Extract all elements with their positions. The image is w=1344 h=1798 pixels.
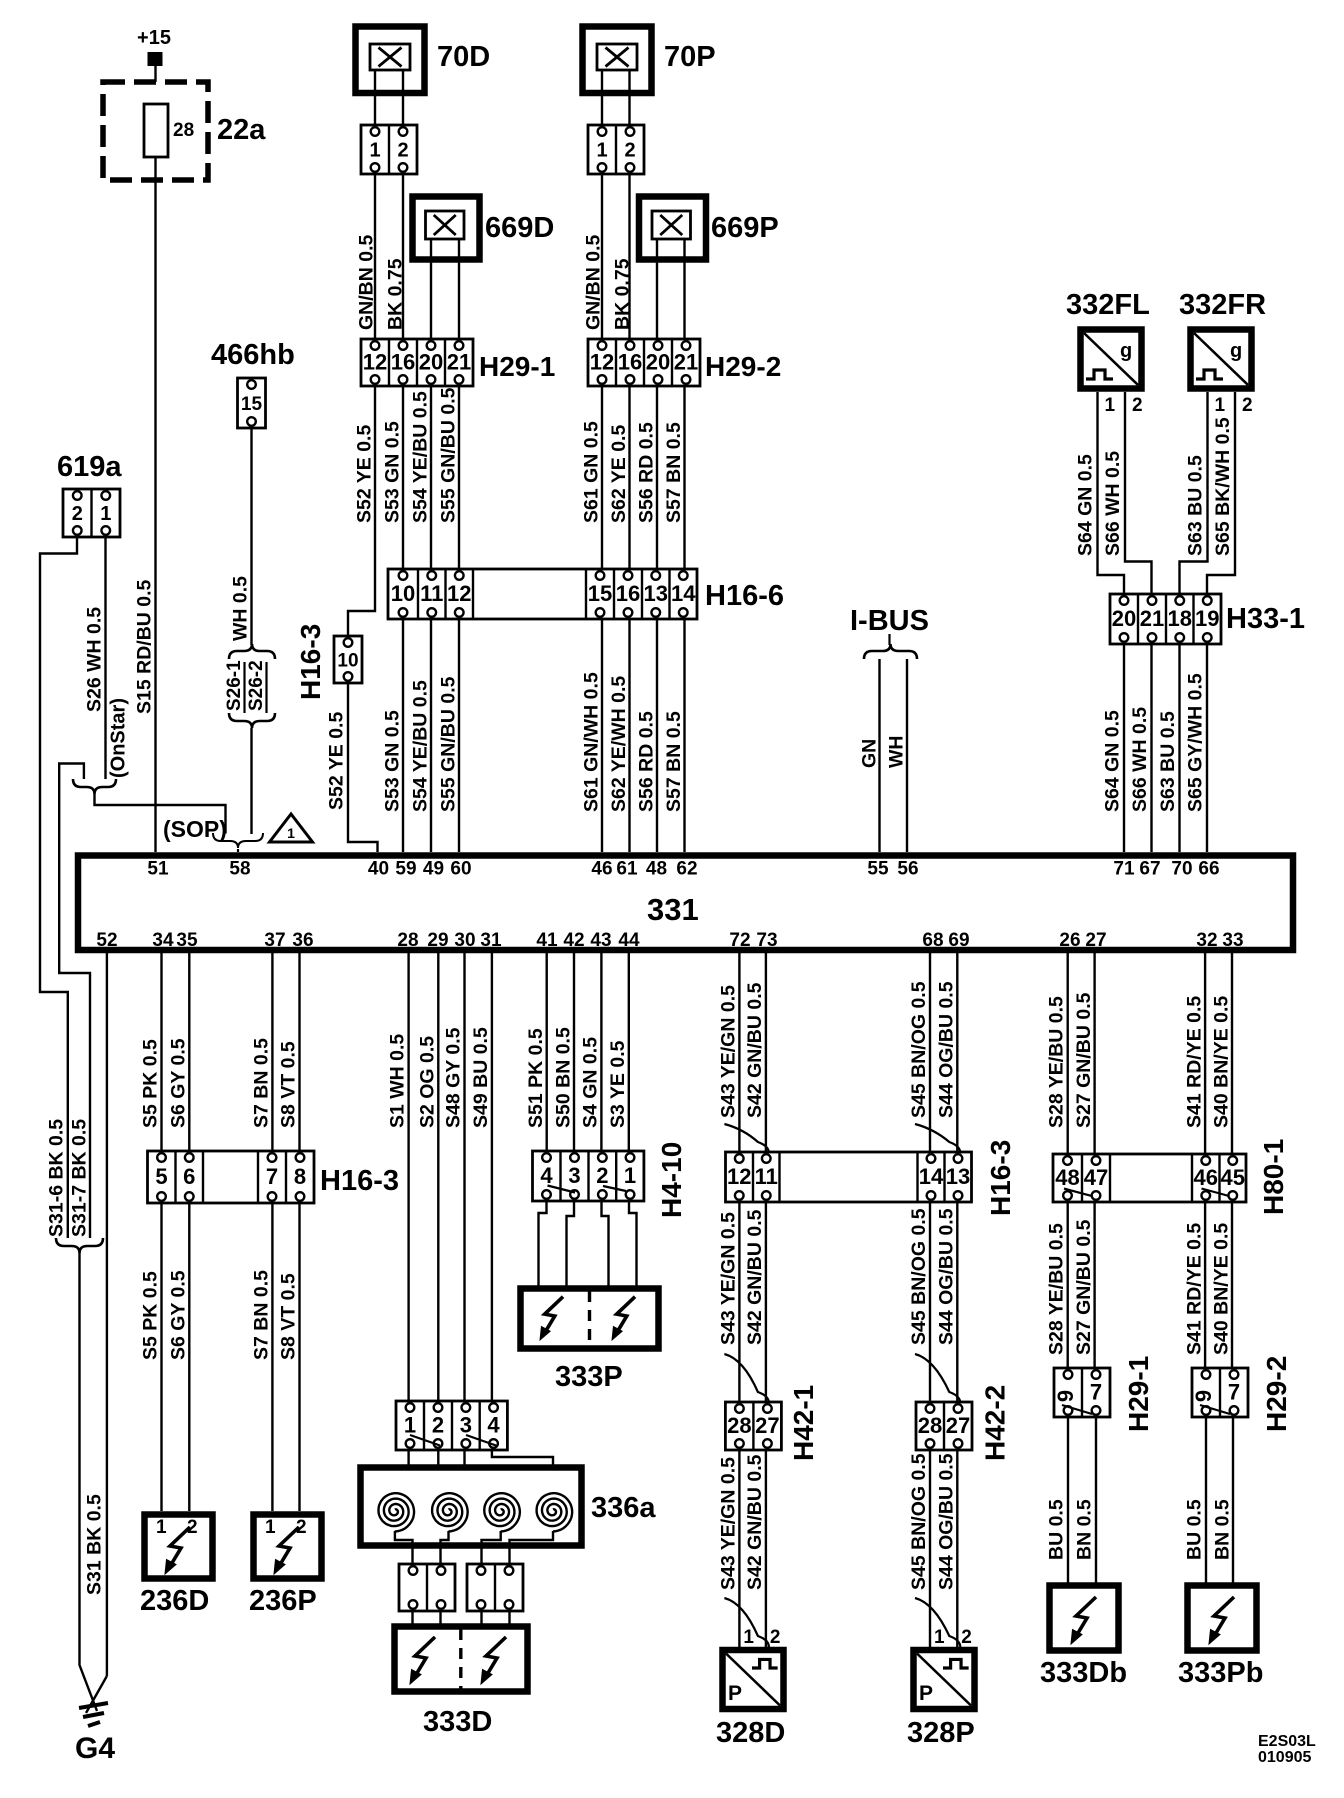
svg-text:70D: 70D xyxy=(437,41,490,73)
svg-text:H29-1: H29-1 xyxy=(1123,1356,1154,1432)
svg-text:28: 28 xyxy=(397,930,418,951)
svg-text:2: 2 xyxy=(397,140,408,162)
svg-text:328D: 328D xyxy=(716,1717,785,1749)
svg-text:S66 WH 0.5: S66 WH 0.5 xyxy=(1102,451,1124,556)
svg-text:S65 GY/WH 0.5: S65 GY/WH 0.5 xyxy=(1185,673,1207,812)
svg-text:21: 21 xyxy=(1140,606,1164,631)
svg-text:H29-2: H29-2 xyxy=(1261,1356,1292,1432)
svg-text:S40 BN/YE 0.5: S40 BN/YE 0.5 xyxy=(1211,996,1233,1128)
svg-text:1: 1 xyxy=(404,1413,416,1438)
svg-text:20: 20 xyxy=(419,350,443,375)
svg-text:37: 37 xyxy=(264,930,285,951)
svg-text:S49 BU 0.5: S49 BU 0.5 xyxy=(470,1027,492,1128)
svg-text:48: 48 xyxy=(1055,1165,1079,1190)
svg-text:S5 PK 0.5: S5 PK 0.5 xyxy=(140,1271,162,1360)
svg-text:22a: 22a xyxy=(217,114,266,146)
svg-text:10: 10 xyxy=(391,581,415,606)
svg-text:S45 BN/OG 0.5: S45 BN/OG 0.5 xyxy=(908,1453,930,1590)
svg-text:S61 GN 0.5: S61 GN 0.5 xyxy=(581,421,603,523)
svg-text:g: g xyxy=(1230,340,1242,362)
svg-text:S48 GY 0.5: S48 GY 0.5 xyxy=(443,1027,465,1128)
svg-text:H29-2: H29-2 xyxy=(705,351,781,382)
svg-text:66: 66 xyxy=(1198,859,1219,880)
svg-text:56: 56 xyxy=(897,859,918,880)
svg-text:32: 32 xyxy=(1196,930,1217,951)
svg-text:GN/BN 0.5: GN/BN 0.5 xyxy=(583,234,605,330)
svg-text:2: 2 xyxy=(596,1163,608,1188)
svg-text:2: 2 xyxy=(1132,395,1143,416)
svg-text:S2 OG 0.5: S2 OG 0.5 xyxy=(417,1036,439,1128)
svg-text:S51 PK 0.5: S51 PK 0.5 xyxy=(525,1028,547,1128)
svg-text:BK 0.75: BK 0.75 xyxy=(612,258,634,330)
svg-text:GN/BN 0.5: GN/BN 0.5 xyxy=(356,234,378,330)
svg-text:1: 1 xyxy=(156,1517,167,1538)
svg-text:1: 1 xyxy=(934,1627,945,1648)
svg-text:+15: +15 xyxy=(137,27,171,49)
svg-text:669P: 669P xyxy=(711,212,779,244)
svg-text:S27 GN/BU 0.5: S27 GN/BU 0.5 xyxy=(1073,992,1095,1128)
svg-text:S27 GN/BU 0.5: S27 GN/BU 0.5 xyxy=(1073,1219,1095,1355)
svg-text:18: 18 xyxy=(1168,606,1192,631)
svg-text:52: 52 xyxy=(96,930,117,951)
svg-text:12: 12 xyxy=(590,350,614,375)
svg-text:1: 1 xyxy=(596,140,607,162)
svg-text:BU 0.5: BU 0.5 xyxy=(1184,1499,1206,1560)
svg-text:12: 12 xyxy=(447,581,471,606)
svg-text:S26-1: S26-1 xyxy=(224,660,245,711)
svg-text:14: 14 xyxy=(671,581,696,606)
svg-text:WH 0.5: WH 0.5 xyxy=(230,576,252,641)
svg-text:4: 4 xyxy=(487,1413,500,1438)
svg-text:69: 69 xyxy=(948,930,969,951)
svg-text:S55 GN/BU 0.5: S55 GN/BU 0.5 xyxy=(438,387,460,523)
svg-text:41: 41 xyxy=(536,930,558,951)
svg-text:55: 55 xyxy=(867,859,889,880)
svg-text:60: 60 xyxy=(450,859,471,880)
svg-text:42: 42 xyxy=(563,930,584,951)
svg-text:58: 58 xyxy=(229,859,250,880)
svg-text:19: 19 xyxy=(1195,606,1219,631)
svg-text:2: 2 xyxy=(432,1413,444,1438)
svg-text:S53 GN 0.5: S53 GN 0.5 xyxy=(382,710,404,812)
svg-text:333D: 333D xyxy=(423,1706,492,1738)
svg-text:2: 2 xyxy=(770,1627,781,1648)
svg-text:S6 GY 0.5: S6 GY 0.5 xyxy=(168,1270,190,1360)
svg-text:12: 12 xyxy=(363,350,387,375)
svg-text:S52 YE 0.5: S52 YE 0.5 xyxy=(326,712,348,810)
svg-text:H16-3: H16-3 xyxy=(295,624,326,700)
svg-text:S4 GN 0.5: S4 GN 0.5 xyxy=(580,1037,602,1128)
svg-text:BN 0.5: BN 0.5 xyxy=(1074,1499,1096,1560)
svg-text:1: 1 xyxy=(624,1163,636,1188)
svg-text:14: 14 xyxy=(919,1164,944,1189)
svg-text:H42-2: H42-2 xyxy=(979,1385,1010,1461)
svg-text:28: 28 xyxy=(173,120,194,141)
svg-text:2: 2 xyxy=(1242,395,1253,416)
svg-text:1: 1 xyxy=(369,140,380,162)
svg-text:I-BUS: I-BUS xyxy=(850,605,929,637)
svg-text:4: 4 xyxy=(540,1163,553,1188)
svg-text:9: 9 xyxy=(1053,1390,1078,1402)
svg-text:BU 0.5: BU 0.5 xyxy=(1046,1499,1068,1560)
svg-text:1: 1 xyxy=(100,503,111,525)
svg-text:72: 72 xyxy=(729,930,750,951)
svg-text:3: 3 xyxy=(568,1163,580,1188)
svg-text:48: 48 xyxy=(646,859,667,880)
svg-text:H16-3: H16-3 xyxy=(985,1140,1016,1216)
svg-text:S6 GY 0.5: S6 GY 0.5 xyxy=(168,1038,190,1128)
svg-text:H80-1: H80-1 xyxy=(1258,1139,1289,1215)
svg-text:466hb: 466hb xyxy=(211,339,295,371)
svg-text:71: 71 xyxy=(1113,859,1135,880)
svg-text:S64 GN 0.5: S64 GN 0.5 xyxy=(1102,710,1124,812)
svg-text:P: P xyxy=(728,1682,742,1705)
svg-text:H16-3: H16-3 xyxy=(320,1165,399,1197)
svg-text:12: 12 xyxy=(727,1164,751,1189)
svg-text:BN 0.5: BN 0.5 xyxy=(1212,1499,1234,1560)
svg-text:S62 YE 0.5: S62 YE 0.5 xyxy=(608,425,630,523)
svg-text:S31 BK 0.5: S31 BK 0.5 xyxy=(84,1494,106,1595)
svg-text:6: 6 xyxy=(183,1164,195,1189)
svg-text:336a: 336a xyxy=(591,1492,656,1524)
svg-text:S7 BN 0.5: S7 BN 0.5 xyxy=(251,1270,273,1360)
svg-text:S44 OG/BU 0.5: S44 OG/BU 0.5 xyxy=(935,1208,957,1345)
svg-text:BK 0.75: BK 0.75 xyxy=(385,258,407,330)
svg-text:21: 21 xyxy=(674,350,698,375)
svg-text:331: 331 xyxy=(647,892,699,927)
svg-text:46: 46 xyxy=(1194,1165,1218,1190)
svg-text:S3 YE 0.5: S3 YE 0.5 xyxy=(607,1040,629,1128)
svg-text:1: 1 xyxy=(1215,395,1226,416)
svg-text:S31-6 BK 0.5: S31-6 BK 0.5 xyxy=(46,1119,68,1237)
svg-text:333Db: 333Db xyxy=(1040,1657,1127,1689)
svg-text:11: 11 xyxy=(755,1164,778,1189)
svg-text:51: 51 xyxy=(147,859,169,880)
svg-text:g: g xyxy=(1120,340,1132,362)
svg-text:H4-10: H4-10 xyxy=(656,1142,687,1218)
svg-text:S63 BU 0.5: S63 BU 0.5 xyxy=(1185,455,1207,556)
svg-text:47: 47 xyxy=(1084,1165,1108,1190)
svg-text:S56 RD 0.5: S56 RD 0.5 xyxy=(636,711,658,812)
svg-text:15: 15 xyxy=(588,581,612,606)
svg-text:70P: 70P xyxy=(664,41,716,73)
svg-text:S28 YE/BU 0.5: S28 YE/BU 0.5 xyxy=(1046,996,1068,1128)
svg-text:70: 70 xyxy=(1171,859,1192,880)
svg-text:P: P xyxy=(919,1682,933,1705)
svg-text:15: 15 xyxy=(241,394,263,415)
svg-text:67: 67 xyxy=(1139,859,1160,880)
svg-text:1: 1 xyxy=(1105,395,1116,416)
svg-text:S66 WH 0.5: S66 WH 0.5 xyxy=(1129,707,1151,812)
svg-text:S43 YE/GN 0.5: S43 YE/GN 0.5 xyxy=(717,1457,739,1590)
svg-text:S44 OG/BU 0.5: S44 OG/BU 0.5 xyxy=(935,981,957,1118)
svg-text:S43 YE/GN 0.5: S43 YE/GN 0.5 xyxy=(717,1212,739,1345)
svg-text:H16-6: H16-6 xyxy=(705,580,784,612)
svg-text:(SOP): (SOP) xyxy=(163,816,227,842)
svg-text:26: 26 xyxy=(1059,930,1080,951)
svg-text:40: 40 xyxy=(368,859,389,880)
svg-text:2: 2 xyxy=(961,1627,972,1648)
svg-text:33: 33 xyxy=(1222,930,1243,951)
svg-text:27: 27 xyxy=(755,1413,779,1438)
svg-text:30: 30 xyxy=(454,930,475,951)
svg-text:S65 BK/WH 0.5: S65 BK/WH 0.5 xyxy=(1212,417,1234,556)
svg-text:S15 RD/BU 0.5: S15 RD/BU 0.5 xyxy=(134,579,156,714)
svg-text:236D: 236D xyxy=(140,1585,209,1617)
svg-text:43: 43 xyxy=(590,930,611,951)
svg-text:H33-1: H33-1 xyxy=(1226,603,1305,635)
svg-text:S26-2: S26-2 xyxy=(246,660,267,711)
svg-text:20: 20 xyxy=(646,350,670,375)
svg-text:S43 YE/GN 0.5: S43 YE/GN 0.5 xyxy=(717,985,739,1118)
svg-text:7: 7 xyxy=(266,1164,278,1189)
svg-text:S8 VT 0.5: S8 VT 0.5 xyxy=(278,1273,300,1360)
svg-text:GN: GN xyxy=(859,739,881,768)
svg-text:S41 RD/YE 0.5: S41 RD/YE 0.5 xyxy=(1184,996,1206,1128)
svg-text:010905: 010905 xyxy=(1258,1749,1311,1766)
svg-text:S5 PK 0.5: S5 PK 0.5 xyxy=(140,1039,162,1128)
svg-text:619a: 619a xyxy=(57,451,122,483)
svg-text:S56 RD 0.5: S56 RD 0.5 xyxy=(636,422,658,523)
svg-text:S57 BN 0.5: S57 BN 0.5 xyxy=(663,422,685,523)
svg-text:13: 13 xyxy=(644,581,668,606)
svg-text:10: 10 xyxy=(337,651,358,672)
svg-text:S55 GN/BU 0.5: S55 GN/BU 0.5 xyxy=(438,676,460,812)
svg-text:16: 16 xyxy=(616,581,640,606)
svg-text:S7 BN 0.5: S7 BN 0.5 xyxy=(251,1038,273,1128)
svg-text:S63 BU 0.5: S63 BU 0.5 xyxy=(1157,711,1179,812)
svg-text:S44 OG/BU 0.5: S44 OG/BU 0.5 xyxy=(935,1453,957,1590)
svg-text:S41 RD/YE 0.5: S41 RD/YE 0.5 xyxy=(1184,1223,1206,1355)
svg-text:16: 16 xyxy=(391,350,415,375)
svg-text:333P: 333P xyxy=(555,1361,623,1393)
svg-text:31: 31 xyxy=(480,930,502,951)
svg-text:36: 36 xyxy=(292,930,313,951)
svg-text:27: 27 xyxy=(946,1413,970,1438)
svg-text:S45 BN/OG 0.5: S45 BN/OG 0.5 xyxy=(908,981,930,1118)
svg-text:73: 73 xyxy=(756,930,777,951)
svg-text:S8 VT 0.5: S8 VT 0.5 xyxy=(278,1041,300,1128)
svg-text:49: 49 xyxy=(423,859,444,880)
svg-text:669D: 669D xyxy=(485,212,554,244)
svg-text:16: 16 xyxy=(618,350,642,375)
svg-text:S61 GN/WH 0.5: S61 GN/WH 0.5 xyxy=(581,672,603,812)
svg-text:28: 28 xyxy=(727,1413,751,1438)
svg-text:62: 62 xyxy=(676,859,697,880)
svg-text:332FL: 332FL xyxy=(1066,289,1150,321)
svg-text:7: 7 xyxy=(1090,1380,1102,1405)
svg-text:44: 44 xyxy=(618,930,640,951)
svg-text:S57 BN 0.5: S57 BN 0.5 xyxy=(663,711,685,812)
svg-text:13: 13 xyxy=(946,1164,970,1189)
svg-text:G4: G4 xyxy=(75,1732,115,1765)
svg-text:S31-7 BK 0.5: S31-7 BK 0.5 xyxy=(69,1119,91,1237)
svg-text:3: 3 xyxy=(460,1413,472,1438)
svg-text:28: 28 xyxy=(918,1413,942,1438)
svg-text:S1 WH 0.5: S1 WH 0.5 xyxy=(387,1034,409,1128)
svg-text:(OnStar): (OnStar) xyxy=(108,698,130,778)
svg-text:S42 GN/BU 0.5: S42 GN/BU 0.5 xyxy=(744,982,766,1118)
svg-text:S52 YE 0.5: S52 YE 0.5 xyxy=(354,425,376,523)
svg-text:1: 1 xyxy=(287,825,295,841)
svg-text:S53 GN 0.5: S53 GN 0.5 xyxy=(382,421,404,523)
svg-text:7: 7 xyxy=(1228,1380,1240,1405)
svg-text:46: 46 xyxy=(591,859,612,880)
svg-text:34: 34 xyxy=(152,930,174,951)
svg-text:E2S03L: E2S03L xyxy=(1258,1733,1316,1750)
svg-text:2: 2 xyxy=(72,503,83,525)
svg-text:S54 YE/BU 0.5: S54 YE/BU 0.5 xyxy=(410,680,432,812)
svg-text:S54 YE/BU 0.5: S54 YE/BU 0.5 xyxy=(410,391,432,523)
svg-text:5: 5 xyxy=(155,1164,167,1189)
svg-text:27: 27 xyxy=(1085,930,1106,951)
svg-text:S45 BN/OG 0.5: S45 BN/OG 0.5 xyxy=(908,1208,930,1345)
svg-text:45: 45 xyxy=(1221,1165,1245,1190)
svg-text:21: 21 xyxy=(447,350,471,375)
svg-text:S42 GN/BU 0.5: S42 GN/BU 0.5 xyxy=(744,1454,766,1590)
svg-text:H29-1: H29-1 xyxy=(479,351,555,382)
svg-text:61: 61 xyxy=(616,859,638,880)
svg-text:1: 1 xyxy=(265,1517,276,1538)
svg-text:S42 GN/BU 0.5: S42 GN/BU 0.5 xyxy=(744,1209,766,1345)
svg-text:333Pb: 333Pb xyxy=(1178,1657,1263,1689)
svg-text:1: 1 xyxy=(743,1627,754,1648)
svg-text:8: 8 xyxy=(294,1164,306,1189)
svg-text:332FR: 332FR xyxy=(1179,289,1266,321)
svg-text:11: 11 xyxy=(420,581,443,606)
svg-text:328P: 328P xyxy=(907,1717,975,1749)
svg-text:S28 YE/BU 0.5: S28 YE/BU 0.5 xyxy=(1046,1223,1068,1355)
svg-text:WH: WH xyxy=(886,736,908,769)
svg-text:68: 68 xyxy=(922,930,943,951)
svg-text:20: 20 xyxy=(1112,606,1136,631)
svg-text:S40 BN/YE 0.5: S40 BN/YE 0.5 xyxy=(1211,1223,1233,1355)
svg-text:236P: 236P xyxy=(249,1585,317,1617)
svg-text:S64 GN 0.5: S64 GN 0.5 xyxy=(1075,454,1097,556)
svg-text:9: 9 xyxy=(1191,1390,1216,1402)
svg-text:2: 2 xyxy=(624,140,635,162)
svg-text:H42-1: H42-1 xyxy=(788,1385,819,1461)
svg-text:S26 WH 0.5: S26 WH 0.5 xyxy=(84,607,106,712)
svg-text:29: 29 xyxy=(427,930,448,951)
svg-text:S62 YE/WH 0.5: S62 YE/WH 0.5 xyxy=(608,676,630,812)
svg-text:S50 BN 0.5: S50 BN 0.5 xyxy=(553,1027,575,1128)
svg-text:59: 59 xyxy=(395,859,416,880)
svg-text:35: 35 xyxy=(176,930,198,951)
